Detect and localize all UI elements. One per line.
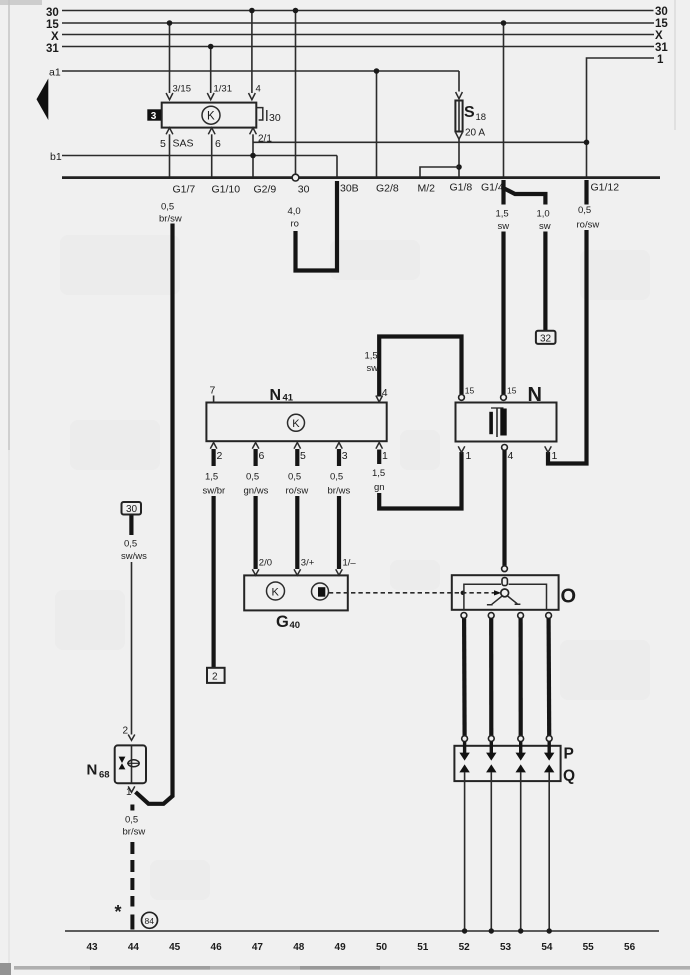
- svg-text:15: 15: [465, 386, 475, 396]
- node on rail a1: [374, 68, 380, 74]
- svg-text:55: 55: [583, 942, 595, 953]
- svg-text:0,5: 0,5: [288, 472, 301, 483]
- bottom track rail: [65, 930, 659, 932]
- svg-text:Q: Q: [563, 768, 575, 785]
- ignition cable 3: [518, 619, 522, 736]
- svg-text:1,5: 1,5: [365, 351, 378, 362]
- wire pin 2/1 horizontal run to G1/12 column: [253, 141, 587, 143]
- coil primary winding bar: [500, 409, 506, 436]
- terminal 30 open circle: [292, 174, 299, 181]
- svg-text:18: 18: [476, 112, 487, 123]
- svg-text:X: X: [655, 30, 663, 42]
- wire 0,5 sw/ws stub: [129, 516, 133, 536]
- spark plug arrows Q row: [459, 764, 554, 772]
- svg-text:sw/ws: sw/ws: [121, 551, 147, 562]
- svg-text:b1: b1: [50, 151, 62, 163]
- svg-text:0,5: 0,5: [124, 539, 137, 550]
- svg-text:48: 48: [293, 942, 305, 953]
- N68 pin 1 connector: [128, 786, 135, 792]
- svg-text:4,0: 4,0: [288, 206, 301, 217]
- main bus bar: [62, 176, 660, 179]
- svg-text:47: 47: [252, 942, 264, 953]
- svg-text:sw: sw: [367, 363, 379, 374]
- svg-text:G1/7: G1/7: [173, 184, 196, 196]
- svg-text:6: 6: [259, 450, 265, 462]
- rotor arm left: [487, 596, 502, 605]
- ground point 84: [142, 912, 158, 928]
- svg-text:43: 43: [86, 942, 98, 953]
- node on rail 31: [208, 44, 214, 50]
- node on rail 15: [501, 20, 507, 26]
- svg-text:N: N: [87, 762, 98, 779]
- node track joints: [462, 928, 467, 933]
- svg-text:30B: 30B: [340, 183, 359, 195]
- svg-text:45: 45: [169, 942, 181, 953]
- svg-text:50: 50: [376, 942, 388, 953]
- pin 1/31 connector: [207, 93, 214, 100]
- distributor O top terminal: [502, 566, 508, 572]
- svg-text:51: 51: [417, 942, 429, 953]
- scan artifact left edge line: [8, 0, 10, 450]
- relay coil symbol K: [202, 106, 220, 124]
- svg-text:3: 3: [151, 111, 157, 122]
- ignition cable 2: [489, 619, 493, 736]
- svg-text:G2/8: G2/8: [376, 183, 399, 195]
- coil terminal 15 right circle: [501, 395, 507, 401]
- svg-text:1,0: 1,0: [537, 209, 550, 220]
- wire G1/4 vertical to rail 15: [503, 24, 505, 177]
- scan artifact right edge: [674, 0, 676, 130]
- relay location tag 3: [147, 109, 161, 120]
- rail a1: [62, 70, 459, 72]
- ground wire dashed segments: [130, 805, 134, 930]
- wire pin2 1,5 sw/br to joint 2: [212, 449, 216, 466]
- svg-text:*: *: [115, 902, 122, 922]
- svg-text:6: 6: [215, 138, 221, 150]
- svg-text:K: K: [207, 111, 215, 123]
- svg-text:N: N: [528, 384, 542, 406]
- svg-text:gn: gn: [374, 482, 385, 493]
- wire fuse to bus G1/8: [458, 139, 460, 176]
- wire relay pin 3/15 to rail 15: [169, 24, 171, 93]
- G40 pin 3/+ connector: [294, 569, 301, 575]
- wire 1,0 sw lower segment: [543, 232, 547, 331]
- node 2/1-line junction: [584, 140, 590, 146]
- wire relay pin 5 to bus G1/7: [169, 134, 171, 176]
- svg-text:ro/sw: ro/sw: [286, 486, 309, 497]
- coil pin 1 right connector: [545, 446, 552, 452]
- mechanical linkage dashed line: [329, 592, 494, 594]
- relay symbol K in G40: [267, 582, 285, 600]
- rotor arm right: [507, 596, 520, 604]
- svg-text:0,5: 0,5: [125, 815, 138, 826]
- wire pin6 0,5 gn/ws to G40: [254, 449, 258, 466]
- wire G2/8 vertical to rail a1: [376, 72, 378, 177]
- pin 7 stub: [213, 396, 215, 403]
- rail b1: [62, 155, 337, 157]
- distributor O box: [452, 575, 559, 610]
- Hall sender G40 box: [244, 575, 348, 610]
- svg-text:30: 30: [298, 184, 310, 196]
- spark plug connectors P / plugs Q box: [454, 746, 560, 781]
- svg-text:1: 1: [126, 787, 132, 798]
- svg-text:2: 2: [123, 726, 129, 737]
- wire relay pin 4 to rail 30: [251, 12, 253, 94]
- svg-text:30: 30: [269, 112, 281, 124]
- wire pin3 0,5 br/ws to G40: [337, 449, 341, 466]
- svg-text:O: O: [561, 586, 577, 608]
- svg-text:G2/9: G2/9: [254, 184, 277, 196]
- svg-text:3/+: 3/+: [301, 558, 315, 569]
- svg-text:44: 44: [128, 942, 140, 953]
- svg-text:32: 32: [540, 333, 552, 344]
- svg-text:30: 30: [126, 504, 138, 515]
- wire plug 2 to track: [490, 772, 492, 931]
- rail 31: [62, 46, 654, 48]
- faint ghost bleed-through: [55, 235, 650, 900]
- svg-text:84: 84: [145, 916, 155, 926]
- distributor output terminals: [461, 613, 467, 619]
- fuse top connector: [456, 92, 463, 99]
- pin 6 connector: [208, 128, 215, 135]
- svg-text:1/–: 1/–: [343, 558, 357, 569]
- wire coil terminal 4 to distributor: [502, 450, 506, 566]
- wire G1/4 bold lower segment to coil terminal 15: [501, 232, 505, 395]
- relay terminal 30 stub: [256, 108, 263, 120]
- wire b1 drop to bus 30B: [336, 156, 338, 177]
- pin 2 connector: [210, 443, 217, 449]
- svg-text:K: K: [292, 418, 300, 430]
- node on rail 30: [293, 8, 299, 14]
- pin 2/1 connector: [250, 128, 257, 135]
- svg-text:sw/br: sw/br: [203, 486, 226, 497]
- control unit N41 box: [206, 403, 386, 442]
- svg-text:31: 31: [46, 43, 59, 55]
- wire 0,5 sw/ws down to valve N68: [131, 562, 133, 735]
- pin 5 connector: [166, 128, 173, 135]
- coil core line: [496, 408, 498, 438]
- scan artifact top-left smudge: [0, 0, 42, 5]
- svg-text:56: 56: [624, 942, 636, 953]
- svg-text:53: 53: [500, 942, 512, 953]
- svg-text:2: 2: [217, 450, 223, 462]
- wire G1/4 bold upper segment: [501, 180, 505, 205]
- svg-text:0,5: 0,5: [578, 205, 591, 216]
- wire 4,0 ro U-loop 30 to 30B: [296, 181, 338, 271]
- svg-text:20 A: 20 A: [465, 128, 485, 139]
- svg-text:P: P: [564, 746, 574, 763]
- wire G1/12 bold run down to coil pin 1: [548, 230, 587, 464]
- svg-text:15: 15: [46, 19, 59, 31]
- svg-text:15: 15: [655, 18, 668, 30]
- svg-text:gn/ws: gn/ws: [244, 486, 269, 497]
- svg-text:30: 30: [655, 6, 668, 18]
- svg-text:M/2: M/2: [418, 183, 436, 195]
- rail X: [62, 34, 654, 36]
- wire pin5 0,5 ro/sw to G40: [295, 449, 299, 466]
- connection box 30: [122, 502, 142, 515]
- svg-text:4: 4: [382, 387, 388, 399]
- svg-text:52: 52: [459, 942, 471, 953]
- rail 30: [62, 10, 654, 12]
- svg-text:1: 1: [552, 450, 558, 462]
- svg-text:2: 2: [212, 672, 218, 683]
- svg-text:0,5: 0,5: [161, 202, 174, 213]
- node on rail 15: [167, 20, 173, 26]
- node on rail 30: [249, 8, 255, 14]
- svg-text:40: 40: [290, 620, 301, 631]
- pin 1 connector: [376, 443, 383, 449]
- node b1 / G2/9 junction: [250, 153, 256, 159]
- svg-text:3/15: 3/15: [173, 84, 192, 95]
- svg-text:G1/10: G1/10: [212, 184, 241, 196]
- svg-text:SAS: SAS: [173, 138, 194, 150]
- G40 pin 1/- connector: [336, 569, 343, 575]
- pin 4 connector: [249, 93, 256, 100]
- svg-text:G1/8: G1/8: [450, 182, 473, 194]
- ignition coil N box: [456, 403, 557, 442]
- ignition cable 1: [462, 619, 467, 736]
- svg-text:a1: a1: [49, 67, 61, 79]
- node fuse branch: [456, 164, 462, 170]
- svg-text:S: S: [464, 104, 475, 121]
- svg-text:0,5: 0,5: [246, 472, 259, 483]
- svg-text:5: 5: [300, 450, 306, 462]
- fuse S18 body: [455, 101, 462, 132]
- svg-text:1: 1: [657, 54, 664, 66]
- svg-text:2/0: 2/0: [259, 558, 272, 569]
- rail 15: [62, 22, 654, 24]
- wire 1,0 sw branch elbow: [503, 186, 545, 205]
- solenoid valve N68 box: [115, 745, 146, 783]
- wire 1,5 gn loop N41 pin1 to coil pin 1: [377, 450, 381, 465]
- svg-text:G: G: [276, 613, 289, 631]
- svg-text:49: 49: [335, 942, 347, 953]
- connection box 32: [536, 331, 556, 344]
- svg-text:br/sw: br/sw: [123, 827, 146, 838]
- svg-text:br/ws: br/ws: [328, 486, 351, 497]
- node on dashed line: [461, 591, 465, 595]
- wire G1/7 bold down-left trunk: [136, 224, 173, 804]
- svg-text:1,5: 1,5: [496, 209, 509, 220]
- G40 pin 2/0 connector: [252, 569, 259, 575]
- svg-text:0,5: 0,5: [330, 472, 343, 483]
- svg-text:sw: sw: [498, 221, 510, 232]
- svg-text:sw: sw: [539, 221, 551, 232]
- svg-text:7: 7: [210, 385, 216, 397]
- svg-text:4: 4: [256, 84, 261, 95]
- svg-text:ro/sw: ro/sw: [577, 220, 600, 231]
- N68 pin 2 connector: [128, 735, 135, 741]
- wire a1 corner down to fuse S18: [458, 71, 460, 92]
- pin 3/15 connector: [166, 93, 173, 100]
- Hall generator symbol: [312, 583, 329, 600]
- svg-text:ro: ro: [291, 219, 299, 230]
- pin 4 connector: [376, 396, 383, 403]
- svg-text:30: 30: [46, 7, 59, 19]
- fuse bottom connector: [456, 133, 463, 140]
- wire 1,5 sw loop N41 pin4 to coil pin 15: [379, 337, 461, 397]
- svg-text:41: 41: [283, 393, 294, 404]
- cable end terminals: [462, 736, 468, 742]
- coil terminal 4 circle: [502, 445, 508, 451]
- svg-text:K: K: [272, 586, 280, 598]
- svg-text:br/sw: br/sw: [159, 214, 182, 225]
- wire 30 vertical to rail 30: [295, 12, 297, 175]
- distributor inner cap line: [464, 584, 547, 609]
- coil terminal 15 left circle: [459, 395, 465, 401]
- pin 3 connector: [336, 443, 343, 449]
- valve symbol: [119, 757, 126, 763]
- svg-text:1,5: 1,5: [205, 472, 218, 483]
- svg-text:4: 4: [508, 450, 514, 462]
- coil pin 1 left connector: [458, 446, 465, 452]
- wire relay pin 2/1 down to bus G2/9: [252, 134, 254, 176]
- svg-text:46: 46: [211, 942, 223, 953]
- valve interior wire: [131, 745, 133, 783]
- svg-text:G1/12: G1/12: [591, 182, 620, 194]
- pin 6 connector: [252, 443, 259, 449]
- distributor electrode: [502, 578, 507, 586]
- svg-text:68: 68: [99, 770, 110, 781]
- plug connector arrows P row: [465, 742, 550, 754]
- distributor rotor: [501, 589, 509, 597]
- scan artifact bottom band: [14, 966, 690, 970]
- svg-text:54: 54: [541, 942, 553, 953]
- svg-text:1,5: 1,5: [372, 468, 385, 479]
- svg-text:1: 1: [466, 450, 472, 462]
- coil secondary winding bar: [489, 412, 493, 434]
- rail 1 (right side only): [587, 57, 654, 59]
- svg-text:31: 31: [655, 42, 668, 54]
- svg-text:5: 5: [160, 138, 166, 150]
- svg-text:N: N: [270, 387, 282, 404]
- svg-text:1: 1: [382, 450, 388, 462]
- wire G1/12 vertical from rail 1: [586, 58, 589, 177]
- wire branch to bus M/2: [420, 167, 459, 177]
- wire plug 3 to track: [520, 772, 522, 931]
- wire plug 1 to track: [464, 772, 466, 931]
- svg-text:1/31: 1/31: [214, 84, 233, 95]
- direction arrow marker: [37, 79, 49, 121]
- wire plug 4 to track: [548, 772, 550, 931]
- relay K box: [162, 103, 257, 128]
- wire relay pin 6 to bus G1/10: [211, 134, 213, 176]
- wire relay pin 1/31 to rail 31: [210, 48, 212, 94]
- connection box 2: [207, 668, 225, 683]
- svg-text:X: X: [51, 31, 59, 43]
- wire G1/12 bold upper segment: [584, 180, 588, 205]
- pin 5 connector: [294, 443, 301, 449]
- ignition cable 4: [546, 619, 551, 736]
- track numbers: [86, 942, 635, 953]
- svg-text:3: 3: [342, 450, 348, 462]
- svg-text:15: 15: [507, 386, 517, 396]
- svg-text:G1/4: G1/4: [481, 182, 504, 194]
- linkage arrowhead: [494, 590, 501, 595]
- relay symbol K in N41: [288, 414, 305, 431]
